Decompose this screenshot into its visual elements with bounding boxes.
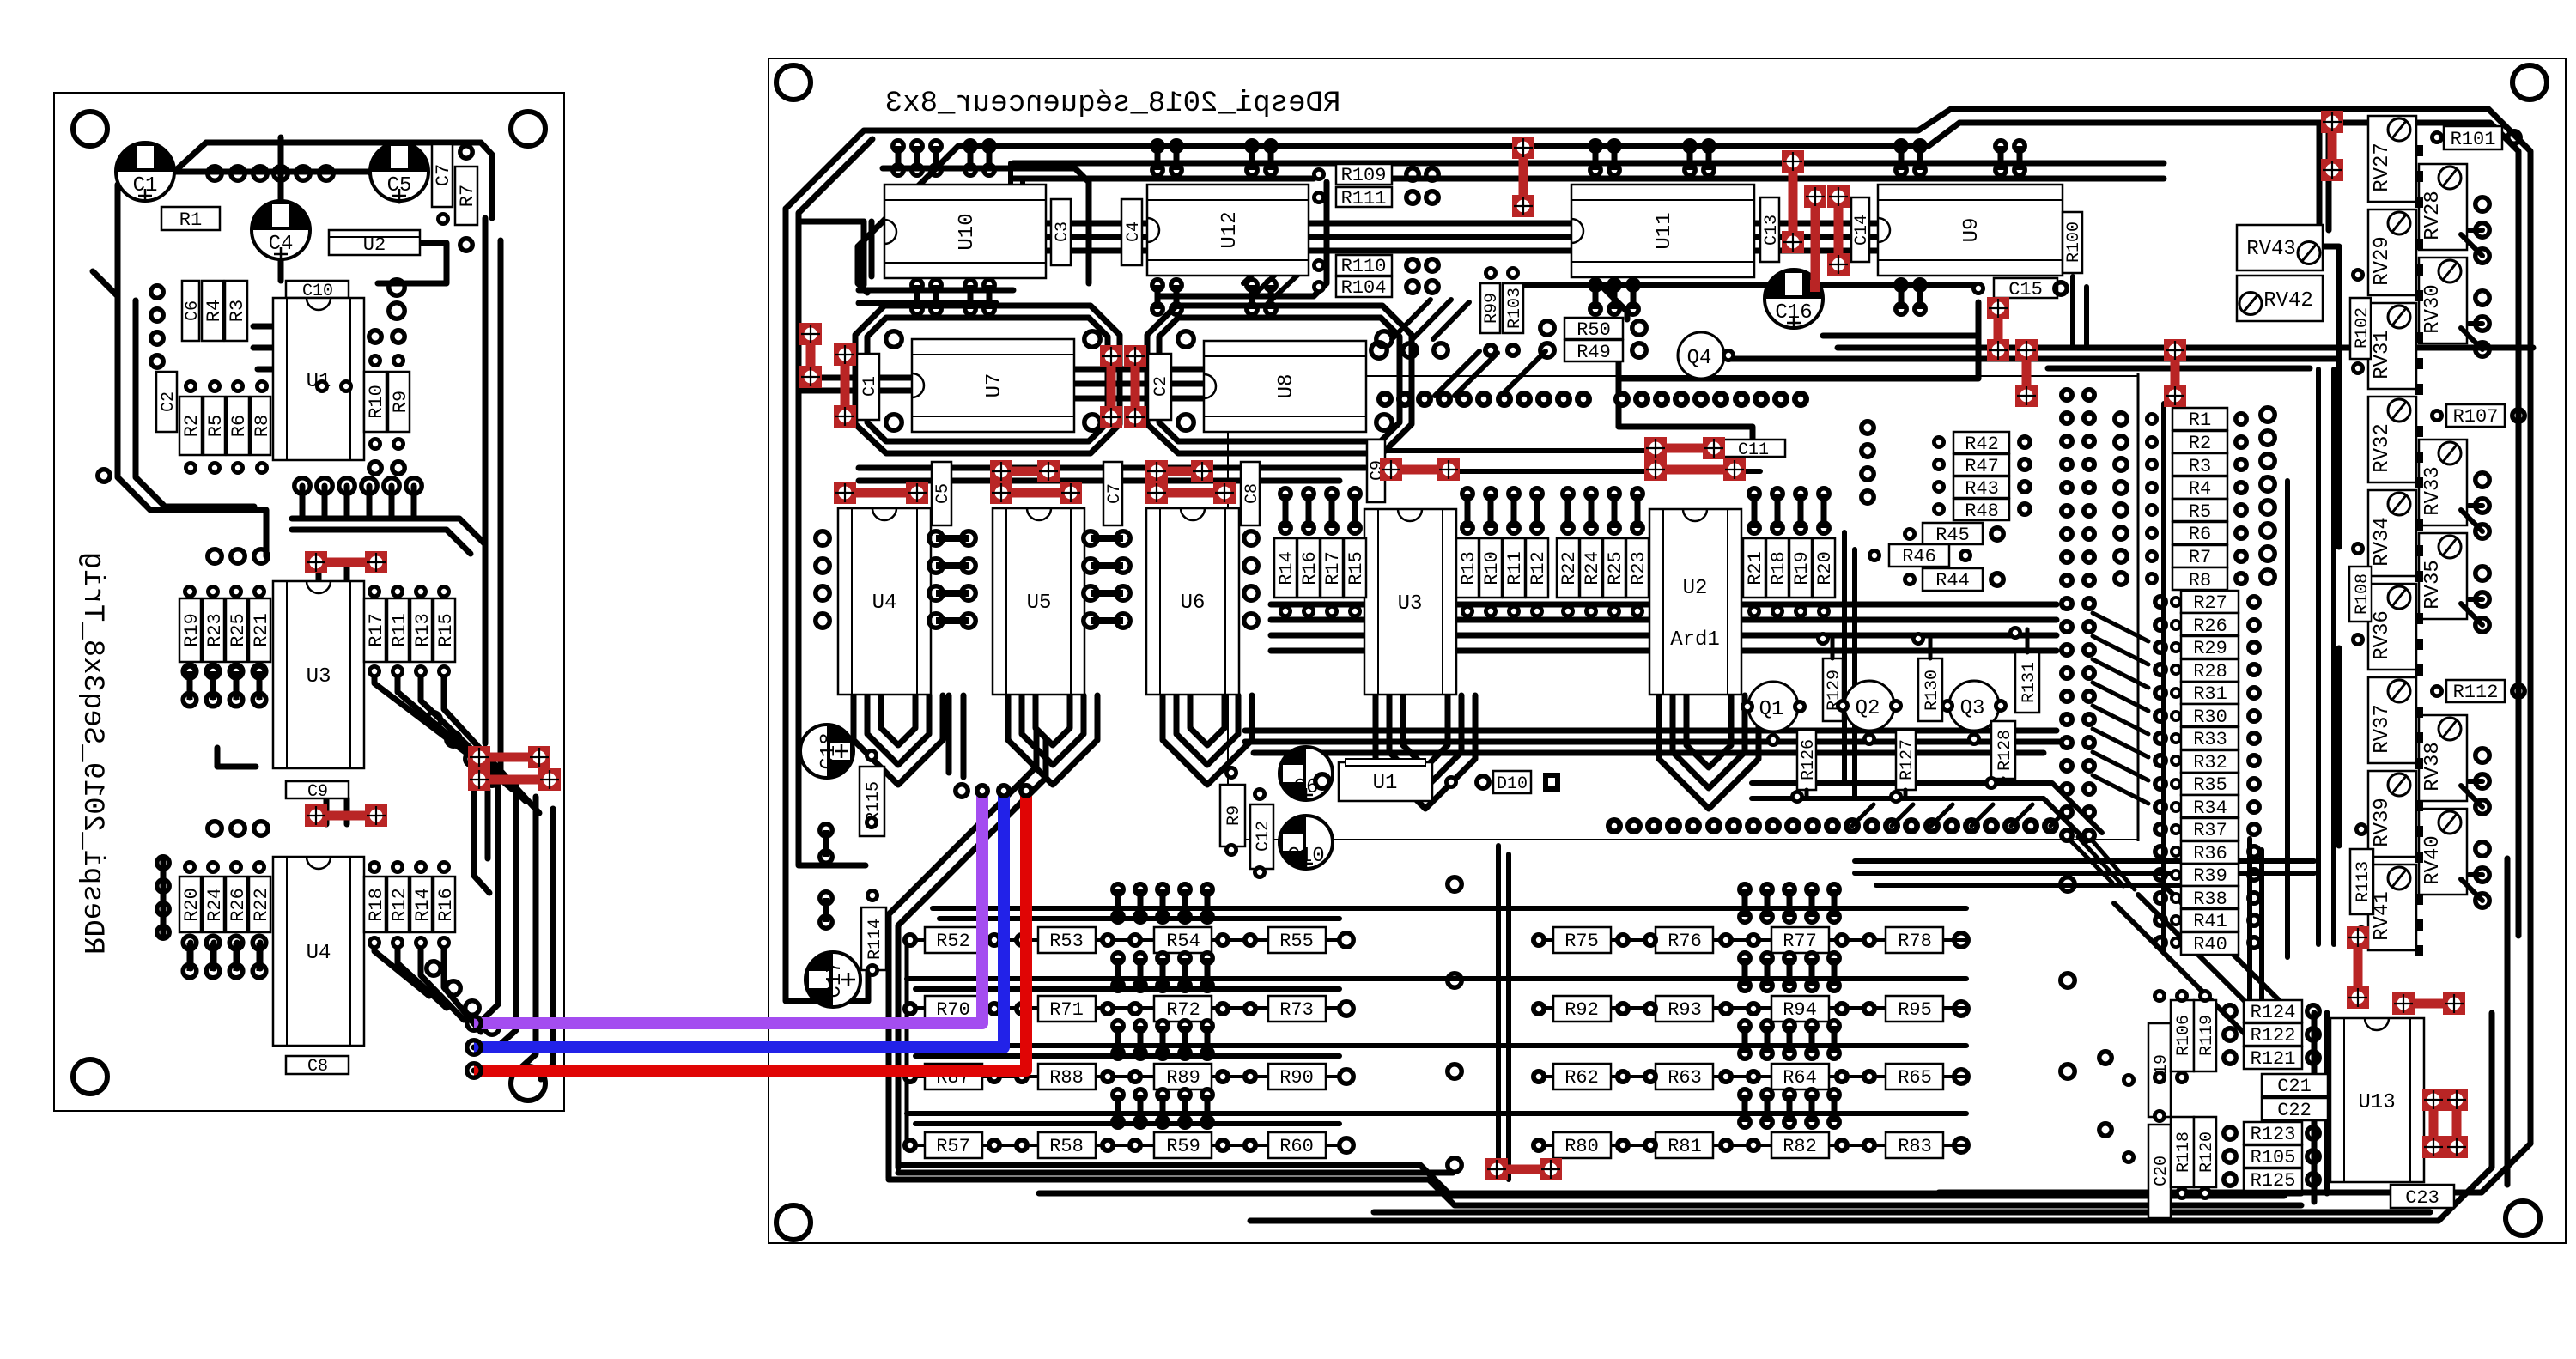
resistor R55 (right board) — [1268, 927, 1326, 953]
svg-text:R45: R45 — [1935, 525, 1970, 546]
svg-text:Q3: Q3 — [1960, 697, 1985, 720]
pads below R10/R9 (left board) — [368, 437, 405, 474]
svg-text:R10: R10 — [1481, 551, 1503, 585]
svg-text:R50: R50 — [1577, 319, 1611, 341]
mounting hole bottom-left (right board) — [776, 1205, 811, 1240]
svg-text:C23: C23 — [2405, 1187, 2439, 1209]
svg-text:RV35: RV35 — [2421, 560, 2445, 610]
svg-text:R27: R27 — [2193, 592, 2227, 614]
svg-text:R112: R112 — [2453, 682, 2499, 703]
resistor R21 (right board) — [1743, 538, 1766, 598]
wire Q4 connections (right board) — [1518, 283, 2339, 359]
svg-text:C5: C5 — [933, 483, 953, 504]
resistor R37 (right board) — [2181, 818, 2239, 841]
capacitor C2 (right board) — [1148, 354, 1171, 420]
resistor R101 (right board) — [2444, 126, 2502, 150]
jumper J16 (right board) — [834, 482, 928, 504]
resistor R108 (right board) — [2349, 567, 2372, 622]
svg-text:RDespi_2019_Seq3x8_Trig: RDespi_2019_Seq3x8_Trig — [76, 552, 108, 955]
jumper J13 (right board) — [1124, 345, 1146, 428]
transistor Q4 (right board) — [1678, 332, 1724, 379]
pads above R10/R9 (left board) — [368, 331, 405, 367]
resistor R128 (right board) — [1991, 721, 2015, 779]
pad junctions row 2 right (right board) — [1531, 1001, 1968, 1016]
jumper J26 (right board) — [2392, 992, 2465, 1015]
wire border outer with chamfers (right board) — [786, 109, 2530, 1192]
svg-text:R8: R8 — [252, 415, 273, 437]
svg-text:U9: U9 — [1960, 218, 1984, 243]
resistor R47 (right board) — [1953, 454, 2009, 477]
capacitor C19 (right board) — [2148, 1023, 2172, 1117]
svg-text:R57: R57 — [936, 1136, 970, 1157]
pad diagonal rings right of U3 (left board) — [427, 713, 499, 786]
pads left column near R42 (right board) — [1862, 422, 1874, 503]
potentiometer RV37 (right board) — [2368, 677, 2416, 763]
resistor R33 (right board) — [2181, 727, 2239, 750]
svg-text:C13: C13 — [1762, 215, 1782, 246]
resistor R31 (right board) — [2181, 682, 2239, 705]
resistor R78 (right board) — [1886, 927, 1943, 953]
IC U2 Ard1 (right board) — [1649, 509, 1741, 695]
wire bottom row horizontals left group (right board) — [910, 940, 1340, 1145]
resistor R81 (right board) — [1656, 1132, 1713, 1158]
wire C4 drop (left board) — [278, 172, 284, 281]
wire U7-U8 horizontals (right board) — [1074, 369, 1204, 398]
resistor R36 (right board) — [2181, 841, 2239, 865]
svg-text:RV31: RV31 — [2371, 330, 2394, 379]
resistor R109 (right board) — [1336, 164, 1392, 186]
pad header row lower (right board) — [1606, 817, 2059, 834]
wire mid horizontals above header row2 (right board) — [1245, 731, 2061, 753]
resistor R7 (right board) — [2172, 545, 2227, 568]
resistor R73 (right board) — [1268, 996, 1326, 1022]
jumper J29 (right board) — [1485, 1158, 1562, 1180]
svg-text:R4: R4 — [204, 300, 225, 322]
IC U4 (left board) — [273, 857, 364, 1046]
potentiometer RV30 (right board) — [2419, 258, 2467, 343]
svg-text:U8: U8 — [1275, 374, 1298, 399]
svg-text:R13: R13 — [1458, 551, 1479, 585]
resistor R12 (left board) — [387, 877, 410, 932]
resistor R125 (right board) — [2244, 1168, 2302, 1192]
wire left border chamfer inner (right board) — [799, 139, 872, 865]
resistor R99 (right board) — [1480, 283, 1502, 333]
resistor R122 (right board) — [2244, 1023, 2302, 1047]
potentiometer RV42 (right board) — [2237, 276, 2323, 321]
pads above U9 (right board) — [1896, 141, 2025, 175]
svg-text:RV34: RV34 — [2371, 517, 2394, 567]
resistor R22 (left board) — [249, 877, 272, 932]
svg-text:R48: R48 — [1965, 501, 1999, 522]
svg-text:C7: C7 — [433, 164, 454, 186]
svg-text:R20: R20 — [1814, 551, 1836, 585]
svg-text:RV29: RV29 — [2371, 236, 2394, 286]
svg-text:R125: R125 — [2251, 1170, 2296, 1192]
wire header row2 stubs (right board) — [1852, 804, 2072, 826]
resistor R70 (right board) — [925, 996, 982, 1022]
pads U1/D10 (right board) — [1315, 774, 1489, 789]
resistor R71 (right board) — [1038, 996, 1096, 1022]
resistor R129 (right board) — [1823, 658, 1844, 721]
capacitor C7 (right board) — [1103, 462, 1125, 525]
mounting hole top-left (right board) — [776, 65, 811, 100]
svg-text:RV30: RV30 — [2421, 284, 2445, 334]
svg-text:R103: R103 — [1505, 288, 1525, 329]
svg-text:R5: R5 — [205, 415, 227, 437]
wire above U7 loop horizontals (right board) — [859, 290, 1013, 303]
wire Q row bus (right board) — [1752, 783, 2102, 841]
IC U13 (right board) — [2330, 1018, 2424, 1182]
svg-text:U5: U5 — [1027, 592, 1052, 615]
resistor R46 (right board) — [1889, 544, 1949, 567]
potentiometer RV27 (right board) — [2368, 116, 2416, 202]
wire U4 right fan (left board) — [374, 943, 481, 1032]
wire rows horizontal buses (right board) — [907, 908, 1966, 1124]
wire chevrons under U2r (right board) — [1659, 695, 1759, 809]
svg-text:C6: C6 — [183, 300, 203, 321]
pads under C10 right (left board) — [389, 280, 404, 319]
resistor R130 (right board) — [1918, 658, 1942, 721]
transistor Q2 (right board) — [1844, 681, 1894, 731]
capacitor C5 (right board) — [932, 462, 953, 525]
svg-text:R110: R110 — [1341, 256, 1387, 277]
svg-text:C15: C15 — [2008, 279, 2043, 300]
svg-text:R25: R25 — [228, 613, 249, 647]
pad mid-gap rings (right board) — [1448, 877, 1461, 1172]
pad cluster row 2 left (right board) — [1113, 953, 1212, 991]
jumper J22 (right board) — [1987, 297, 2009, 361]
capacitor C12 (right board) — [1250, 804, 1273, 869]
svg-text:R34: R34 — [2193, 798, 2227, 819]
svg-text:R42: R42 — [1965, 434, 1999, 455]
svg-text:R120: R120 — [2197, 1131, 2217, 1173]
svg-text:C7: C7 — [1105, 483, 1125, 504]
svg-text:R22: R22 — [1558, 551, 1580, 585]
resistor R119 (right board) — [2194, 1000, 2217, 1071]
IC U3 (left board) — [273, 581, 364, 768]
IC U5 (right board) — [993, 508, 1084, 695]
svg-text:U13: U13 — [2358, 1091, 2395, 1114]
wire right vertical bus lower (left board) — [498, 773, 553, 970]
resistor R58 (right board) — [1038, 1132, 1096, 1158]
transistor Q1 (right board) — [1748, 682, 1798, 731]
svg-text:R28: R28 — [2193, 661, 2227, 683]
pads below U11 (right board) — [1590, 280, 1638, 314]
svg-text:R40: R40 — [2193, 934, 2227, 956]
resistor R76 (right board) — [1656, 927, 1713, 953]
wire chevrons under U6 (right board) — [1163, 695, 1252, 785]
mounting hole bottom-right (left board) — [511, 1066, 545, 1101]
svg-text:R3: R3 — [227, 300, 248, 322]
svg-text:R23: R23 — [1628, 551, 1649, 585]
svg-text:R9: R9 — [390, 391, 411, 413]
pads above U4 resistors (left board) — [183, 860, 451, 874]
svg-text:R5: R5 — [2189, 501, 2211, 523]
resistor R100 (right board) — [2063, 212, 2084, 273]
wire U2 to C10 (left board) — [369, 172, 447, 283]
svg-text:R11: R11 — [389, 613, 410, 647]
IC U3 (right board) — [1364, 509, 1456, 695]
resistor R60 (right board) — [1268, 1132, 1326, 1158]
diode D10 cathode pad (right board) — [1544, 774, 1559, 791]
resistor R49 (right board) — [1564, 340, 1623, 363]
wire below U7/U8 (right board) — [859, 468, 1365, 481]
pads above R2 group (left board) — [184, 379, 353, 393]
wire U3 right fan (left board) — [374, 671, 539, 813]
pad right-gap rings (right board) — [2061, 877, 2075, 1078]
resistor R34 (right board) — [2181, 795, 2239, 819]
svg-text:U6: U6 — [1181, 592, 1206, 615]
svg-text:R16: R16 — [1299, 551, 1321, 585]
wire bottom bundle (right board) — [889, 1013, 2492, 1221]
wire bends to connector pads (left board) — [474, 970, 553, 1079]
capacitor C10 (left board) — [286, 281, 349, 301]
svg-text:R8: R8 — [2189, 570, 2211, 592]
potentiometer RV34 (right board) — [2368, 490, 2416, 576]
IC U4 (right board) — [838, 508, 931, 695]
svg-text:C2: C2 — [159, 391, 179, 412]
capacitor C5 (left board) — [370, 143, 428, 203]
resistor R62 (right board) — [1553, 1064, 1611, 1089]
svg-text:R22: R22 — [251, 888, 272, 922]
svg-text:R54: R54 — [1166, 931, 1200, 952]
resistor R127 (right board) — [1896, 730, 1917, 790]
resistor R32 (right board) — [2181, 750, 2239, 774]
svg-text:RV42: RV42 — [2263, 289, 2313, 312]
wire IC row horizontals (right board) — [1046, 223, 1878, 251]
resistor R43 (right board) — [1953, 476, 2009, 500]
resistor R45 (right board) — [1923, 523, 1983, 546]
resistor R94 (right board) — [1771, 996, 1829, 1022]
resistor R113 (right board) — [2350, 849, 2373, 914]
pads wire attach left (left board) — [467, 1016, 481, 1077]
potentiometer RV36 (right board) — [2368, 584, 2416, 670]
jumper J23 (right board) — [2015, 339, 2038, 407]
svg-text:R76: R76 — [1668, 931, 1702, 952]
resistor R131 (right board) — [2015, 652, 2039, 713]
resistor R63 (right board) — [1656, 1064, 1713, 1089]
IC U11 (right board) — [1571, 185, 1754, 277]
pads R27-R40 sides (right board) — [2155, 596, 2259, 949]
resistor R4 (right board) — [2172, 476, 2227, 500]
resistor R23 (right board) — [1626, 538, 1649, 598]
svg-text:R121: R121 — [2251, 1048, 2296, 1070]
resistor R19 (right board) — [1789, 538, 1813, 598]
resistor R92 (right board) — [1553, 996, 1611, 1022]
pad cluster row 1 right (right board) — [1740, 884, 1839, 922]
resistor R28 (right board) — [2181, 659, 2239, 683]
IC U8 (right board) — [1204, 341, 1366, 432]
svg-text:R126: R126 — [1799, 739, 1819, 780]
svg-text:R58: R58 — [1049, 1136, 1084, 1157]
jumper J14 (right board) — [990, 460, 1060, 482]
svg-text:U3: U3 — [307, 665, 331, 689]
svg-text:RV39: RV39 — [2371, 798, 2394, 847]
wire U1 area stubs (left board) — [253, 326, 386, 403]
jumper J5 (right board) — [1512, 137, 1534, 217]
svg-text:R2: R2 — [181, 415, 203, 437]
svg-text:R29: R29 — [2193, 638, 2227, 659]
svg-text:R16: R16 — [435, 888, 457, 922]
resistor R25 (left board) — [226, 598, 249, 662]
wire right vertical bus upper (left board) — [485, 218, 501, 769]
wire jumper drops right of U4 (left board) — [474, 790, 489, 893]
pads above U12 (right board) — [1152, 141, 1276, 175]
wire chevrons under U4 (right board) — [854, 695, 943, 785]
wire column bottom fan (right board) — [1855, 837, 2314, 889]
wire U13 area (right board) — [2314, 858, 2507, 1202]
pads below U10 (right board) — [912, 280, 994, 314]
resistor R93 (right board) — [1656, 996, 1713, 1022]
jumper J4 (left board) — [468, 768, 561, 791]
mounting hole bottom-left (left board) — [73, 1059, 107, 1094]
wire left verticals (left board) — [93, 185, 266, 556]
svg-text:R90: R90 — [1279, 1067, 1314, 1089]
svg-text:R6: R6 — [228, 415, 250, 437]
svg-text:R100: R100 — [2064, 221, 2084, 263]
pads R50/R49 (right board) — [1540, 321, 1646, 357]
pad row above U3 (left board) — [208, 549, 268, 563]
resistor R118 (right board) — [2171, 1117, 2194, 1187]
resistor R44 (right board) — [1923, 568, 1983, 592]
resistor R30 (right board) — [2181, 704, 2239, 728]
pads between U4 and U5 (right board) — [929, 531, 975, 628]
wire left of U7 horizontals (right board) — [800, 378, 912, 391]
resistor R5 (left board) — [204, 397, 227, 455]
wire header columns area (right board) — [1838, 348, 2533, 841]
capacitor C23 (right board) — [2391, 1185, 2454, 1209]
svg-text:R37: R37 — [2193, 820, 2227, 841]
svg-text:R71: R71 — [1049, 999, 1084, 1021]
svg-text:U7: U7 — [983, 373, 1006, 398]
svg-text:R1: R1 — [179, 209, 202, 231]
pads right of U6 (right board) — [1244, 531, 1258, 628]
pad column left of U4 (left board) — [157, 857, 169, 938]
svg-text:RV32: RV32 — [2371, 423, 2394, 473]
svg-text:R94: R94 — [1783, 999, 1817, 1021]
svg-text:R124: R124 — [2251, 1002, 2296, 1023]
pads above U10 (right board) — [893, 141, 994, 175]
svg-text:R114: R114 — [866, 919, 885, 960]
resistor R1 (right board) — [2172, 408, 2227, 431]
resistor R39 (right board) — [2181, 864, 2239, 887]
svg-text:R47: R47 — [1965, 456, 1999, 477]
resistor R123 (right board) — [2244, 1122, 2302, 1145]
pad header row upper (right board) — [1376, 391, 1809, 408]
resistor R17 (left board) — [364, 598, 387, 662]
svg-text:R24: R24 — [1582, 551, 1603, 585]
pads U13 block (right board) — [2153, 989, 2319, 1200]
pads right edge resistors (right board) — [2430, 130, 2524, 698]
svg-text:RV43: RV43 — [2246, 238, 2296, 261]
svg-text:R102: R102 — [2353, 307, 2372, 349]
resistor R88 (right board) — [1038, 1064, 1096, 1089]
pads around U8 (right board) — [1178, 331, 1392, 430]
resistor R83 (right board) — [1886, 1132, 1943, 1158]
svg-text:U11: U11 — [1653, 212, 1676, 249]
potentiometer RV43 (right board) — [2237, 225, 2323, 270]
wire purple interconnect — [474, 791, 982, 1023]
wire left column lower (left board) — [161, 858, 167, 936]
svg-text:Q2: Q2 — [1856, 697, 1880, 720]
pad cluster row 4 left (right board) — [1113, 1089, 1212, 1127]
svg-text:R39: R39 — [2193, 865, 2227, 887]
svg-text:R44: R44 — [1935, 570, 1970, 592]
resistor R20 (right board) — [1813, 538, 1836, 598]
svg-text:RV38: RV38 — [2421, 742, 2445, 792]
capacitor C9 (right board) — [1367, 440, 1388, 502]
svg-text:R26: R26 — [2193, 616, 2227, 637]
svg-text:R17: R17 — [1322, 551, 1344, 585]
pad header columns (right board) — [2059, 387, 2097, 843]
resistor R9 (right board) — [1220, 785, 1245, 846]
svg-text:R64: R64 — [1783, 1067, 1817, 1089]
resistor R5 (right board) — [2172, 499, 2227, 523]
resistor R24 (right board) — [1580, 538, 1603, 598]
svg-text:R123: R123 — [2251, 1124, 2296, 1145]
pads R110/R104 group (right board) — [1312, 258, 1438, 294]
mounting hole top-left (left board) — [73, 112, 107, 146]
svg-text:C22: C22 — [2277, 1100, 2312, 1121]
svg-text:C20: C20 — [2152, 1156, 2172, 1186]
pads left of C6 (left board) — [151, 286, 163, 367]
pad junctions row 4 right (right board) — [1531, 1138, 1968, 1153]
wire blue interconnect — [474, 791, 1004, 1047]
resistor R17 (right board) — [1321, 538, 1344, 598]
mounting hole top-right (right board) — [2512, 65, 2547, 100]
resistor R54 (right board) — [1154, 927, 1212, 953]
resistor R87 (right board) — [925, 1064, 982, 1089]
jumper J3 (left board) — [468, 746, 550, 768]
jumper J10 (right board) — [834, 343, 856, 428]
potentiometer RV35 (right board) — [2419, 533, 2467, 619]
resistor R13 (left board) — [410, 598, 434, 662]
svg-text:R18: R18 — [1768, 551, 1789, 585]
resistor R121 (right board) — [2244, 1047, 2302, 1070]
wire chevrons under U3r (right board) — [1376, 695, 1475, 809]
pads below U3 resistors (left board) — [183, 664, 451, 678]
svg-text:R36: R36 — [2193, 843, 2227, 865]
jumper J11 (right board) — [799, 323, 822, 388]
jumper J9 (right board) — [2321, 111, 2343, 181]
pads left of C19/C20 (right board) — [2099, 1052, 2136, 1164]
IC U12 (right board) — [1147, 185, 1309, 276]
IC U7 (right board) — [912, 339, 1074, 432]
resistor R18 (left board) — [364, 877, 387, 932]
IC U2 (left board) — [329, 230, 420, 256]
resistor R38 (right board) — [2181, 886, 2239, 910]
jumper J19 (right board) — [1380, 458, 1460, 481]
pads R114/C17 (right board) — [866, 889, 879, 977]
capacitor C18 (right board) — [800, 725, 854, 778]
svg-text:Q1: Q1 — [1759, 698, 1784, 721]
jumper J17 (right board) — [1145, 460, 1213, 482]
resistor R103 (right board) — [1503, 283, 1525, 333]
IC U1 (left board) — [273, 298, 364, 460]
svg-text:R25: R25 — [1605, 551, 1626, 585]
resistor R25 (right board) — [1603, 538, 1626, 598]
wire top loop (left board) — [174, 143, 492, 218]
resistor R64 (right board) — [1771, 1064, 1829, 1089]
wire C1-C5 row (left board) — [174, 169, 369, 175]
svg-text:C21: C21 — [2277, 1076, 2312, 1097]
pads under U1 (left board) — [295, 478, 422, 494]
resistor R16 (right board) — [1297, 538, 1321, 598]
pads between U5 and U6 (right board) — [1084, 531, 1130, 628]
pad cluster row 3 right (right board) — [1740, 1021, 1839, 1059]
pads above mid resistors (right board) — [1280, 488, 1829, 533]
wire border second line (right board) — [858, 123, 2518, 936]
